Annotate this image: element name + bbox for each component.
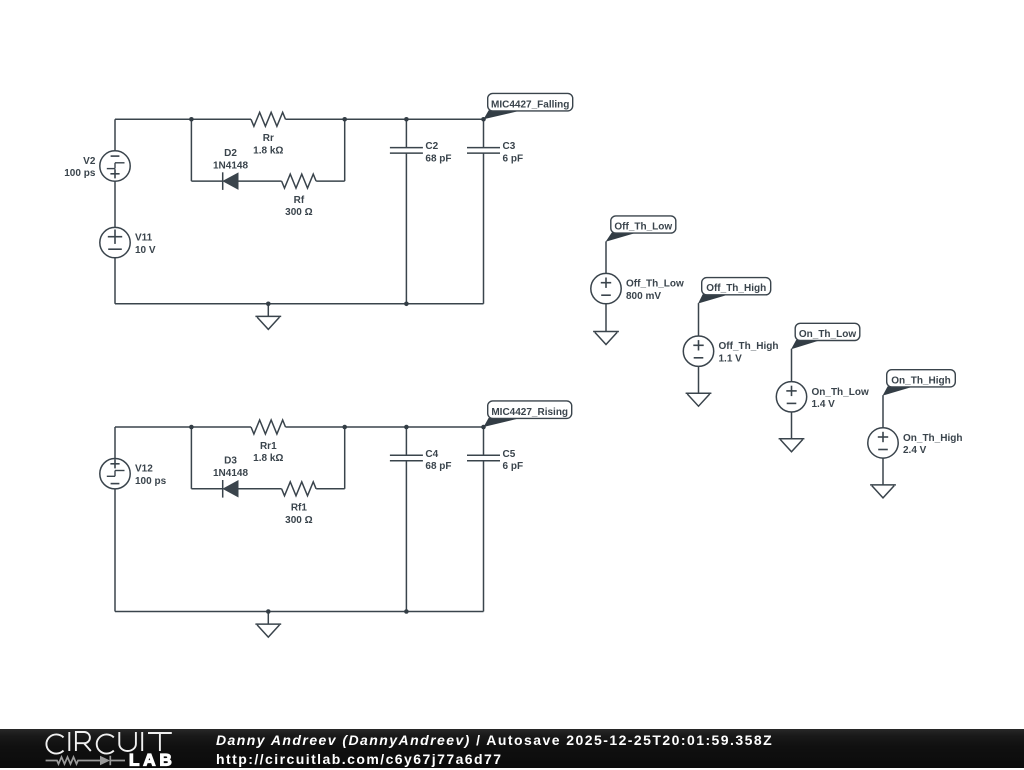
svg-text:On_Th_High: On_Th_High: [891, 375, 950, 386]
capacitor C4 68 pF: [390, 449, 452, 472]
resistor Rr 1.8 k&#937;: [251, 112, 286, 156]
svg-text:1N4148: 1N4148: [213, 160, 248, 171]
svg-text:On_Th_High: On_Th_High: [903, 433, 962, 444]
ground circuit 1: [255, 316, 281, 329]
wire C3 lower lead: [483, 153, 485, 304]
wire branch 2 down at node left: [190, 427, 192, 489]
wire C2 upper lead: [405, 119, 407, 147]
ground Off_Th_High: [686, 393, 712, 406]
net flag Off_Th_High: [698, 278, 771, 304]
svg-text:100 ps: 100 ps: [135, 476, 167, 487]
node junction ground circuit 1: [266, 302, 271, 307]
logo mini circuit: [46, 756, 125, 765]
svg-text:D3: D3: [224, 456, 237, 467]
svg-text:V12: V12: [135, 464, 153, 475]
wire left rail 2 bottom: [114, 489, 116, 612]
svg-text:100 ps: 100 ps: [64, 168, 96, 179]
capacitor C2 68 pF: [390, 141, 452, 164]
node junction ground circuit 2: [266, 609, 271, 614]
wire ground stem circuit 1: [267, 304, 269, 317]
svg-text:Off_Th_Low: Off_Th_Low: [626, 279, 684, 290]
node junction MIC4427_Falling: [481, 117, 486, 122]
node junction MIC4427_Rising: [481, 425, 486, 430]
voltage source V2 100 ps step: [64, 151, 130, 181]
svg-text:C4: C4: [425, 449, 438, 460]
wire Rf1 to right branch 2: [316, 488, 345, 490]
wire On_Th_High flag to source: [882, 395, 884, 428]
net flag MIC4427_Falling: [484, 93, 573, 119]
node junction top-left branch: [189, 117, 194, 122]
node junction 2 top-right branch: [342, 425, 347, 430]
node junction C4 bottom: [404, 609, 409, 614]
wire On_Th_Low flag to source: [791, 349, 793, 382]
net flag Off_Th_Low: [606, 216, 676, 242]
svg-text:D2: D2: [224, 148, 237, 159]
node junction C4 top: [404, 425, 409, 430]
ground On_Th_Low: [779, 439, 805, 452]
svg-text:C3: C3: [503, 141, 516, 152]
node junction 2 top-left branch: [189, 425, 194, 430]
logo word CIRCUIT: [46, 732, 171, 754]
wire top net from Rr to MIC4427_Falling flag: [286, 118, 484, 120]
svg-text:Off_Th_Low: Off_Th_Low: [614, 222, 672, 233]
svg-text:6 pF: 6 pF: [503, 461, 524, 472]
wire Off_Th_Low source to ground: [605, 304, 607, 332]
svg-text:On_Th_Low: On_Th_Low: [799, 329, 856, 340]
svg-text:Rf: Rf: [294, 195, 305, 206]
node junction top-right branch: [342, 117, 347, 122]
voltage source Off_Th_Low 800 mV: [591, 273, 684, 303]
diode D3 1N4148: [213, 456, 248, 498]
svg-text:800 mV: 800 mV: [626, 291, 661, 302]
net flag On_Th_High: [883, 370, 956, 396]
svg-text:MIC4427_Falling: MIC4427_Falling: [491, 99, 569, 110]
wire branch down at node left: [190, 119, 192, 181]
wire C4 lower lead: [405, 461, 407, 612]
wire branch 2 up to top net: [344, 427, 346, 489]
svg-text:LAB: LAB: [129, 750, 176, 769]
svg-text:300 Ω: 300 Ω: [285, 207, 312, 218]
svg-text:6 pF: 6 pF: [503, 153, 524, 164]
svg-text:1.8 kΩ: 1.8 kΩ: [253, 145, 283, 156]
svg-text:Off_Th_High: Off_Th_High: [706, 283, 766, 294]
wire Rf to right branch: [316, 180, 345, 182]
capacitor C3 6 pF: [467, 141, 523, 164]
svg-text:Rr1: Rr1: [260, 441, 277, 452]
wire bottom net circuit 2: [115, 611, 484, 613]
wire C5 upper lead: [483, 427, 485, 455]
svg-text:C5: C5: [503, 449, 516, 460]
node junction C2 bottom: [404, 302, 409, 307]
wire top net 2 from Rr1 to MIC4427_Rising flag: [286, 426, 484, 428]
svg-text:300 Ω: 300 Ω: [285, 515, 312, 526]
diode D2 1N4148: [213, 148, 248, 190]
wire bottom net circuit 1: [115, 303, 484, 305]
wire Off_Th_High source to ground: [698, 366, 700, 393]
ground circuit 2: [255, 624, 281, 637]
voltage source On_Th_Low 1.4 V: [776, 382, 869, 412]
wire top net 2 from V12 to Rr1: [115, 426, 251, 428]
wire D3 to Rf1: [238, 488, 282, 490]
svg-text:C2: C2: [425, 141, 438, 152]
wire C3 upper lead: [483, 119, 485, 147]
svg-text:Off_Th_High: Off_Th_High: [719, 341, 779, 352]
svg-text:1.1 V: 1.1 V: [719, 353, 743, 364]
svg-text:68 pF: 68 pF: [425, 153, 451, 164]
svg-text:Rf1: Rf1: [291, 503, 308, 514]
voltage source Off_Th_High 1.1 V: [683, 336, 778, 366]
footer bar: [0, 729, 1024, 768]
ground Off_Th_Low: [593, 332, 619, 345]
wire branch up to top net: [344, 119, 346, 181]
wire C5 lower lead: [483, 461, 485, 612]
svg-text:1.4 V: 1.4 V: [812, 399, 836, 410]
svg-text:V11: V11: [135, 233, 153, 244]
svg-text:On_Th_Low: On_Th_Low: [812, 387, 869, 398]
resistor Rr1 1.8 k&#937;: [251, 420, 286, 464]
svg-text:MIC4427_Rising: MIC4427_Rising: [491, 407, 568, 418]
ground On_Th_High: [870, 485, 896, 498]
wire ground stem circuit 2: [267, 612, 269, 625]
svg-text:68 pF: 68 pF: [425, 461, 451, 472]
resistor Rf1 300 &#937;: [282, 482, 317, 526]
svg-text:Rr: Rr: [263, 133, 274, 144]
wire D2 to Rf: [238, 180, 282, 182]
wire Off_Th_Low flag to source: [605, 241, 607, 273]
voltage source On_Th_High 2.4 V: [868, 428, 963, 458]
footer text: [216, 731, 773, 769]
wire Off_Th_High flag to source: [698, 303, 700, 336]
voltage source V12 100 ps step: [100, 459, 167, 489]
resistor Rf 300 &#937;: [282, 174, 317, 218]
svg-text:2.4 V: 2.4 V: [903, 445, 927, 456]
svg-text:10 V: 10 V: [135, 245, 156, 256]
wire between V2 and V11: [114, 181, 116, 227]
svg-text:1N4148: 1N4148: [213, 468, 248, 479]
svg-text:V2: V2: [83, 156, 96, 167]
net flag MIC4427_Rising: [484, 401, 572, 427]
svg-text:1.8 kΩ: 1.8 kΩ: [253, 453, 283, 464]
CircuitLab logo: [0, 724, 200, 770]
capacitor C5 6 pF: [467, 449, 523, 472]
wire left rail top: [114, 119, 116, 151]
wire top net from V2 to Rr: [115, 118, 251, 120]
wire left rail 2 top: [114, 427, 116, 459]
wire C2 lower lead: [405, 153, 407, 304]
voltage source V11 10 V: [100, 227, 156, 257]
wire branch 2 to D3 anode side: [191, 488, 222, 490]
wire On_Th_Low source to ground: [791, 412, 793, 439]
node junction C2 top: [404, 117, 409, 122]
wire branch to D2 anode side: [191, 180, 222, 182]
net flag On_Th_Low: [791, 323, 860, 349]
wire C4 upper lead: [405, 427, 407, 455]
wire left rail bottom: [114, 258, 116, 304]
wire On_Th_High source to ground: [882, 458, 884, 485]
